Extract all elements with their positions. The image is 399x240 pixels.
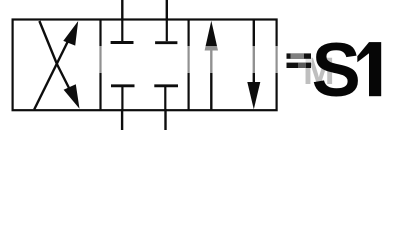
position 3 down arrow head — [247, 82, 260, 109]
position 3 down arrow shaft — [253, 21, 255, 86]
position 1 crossed-flow up arrow shaft — [34, 35, 71, 110]
port line B (top right) — [166, 0, 168, 21]
divider line between position 1 and position 2 — [99, 20, 101, 111]
valve body outline — [13, 20, 277, 111]
watermark lightening band upper — [96, 46, 312, 63]
position 1 crossed-flow up arrow head — [63, 21, 78, 46]
designation text S letter — [312, 27, 361, 112]
equals sign gray watermark patch on upper bar — [291, 53, 305, 58]
designation digit 1 flag — [357, 42, 369, 62]
blocked port symbol top-right: bar — [155, 41, 177, 44]
blocked port symbol top-left: bar — [111, 41, 134, 44]
equals sign lower bar — [287, 63, 312, 68]
designation digit 1 stem — [369, 42, 381, 96]
equals sign gray watermark patch on lower bar — [298, 63, 306, 68]
blocked port symbol top-right: stem — [166, 20, 168, 41]
port line P (bottom left) — [121, 109, 123, 130]
port line T (bottom right) — [164, 109, 166, 130]
divider line between position 2 and position 3 — [188, 20, 190, 111]
blocked port symbol bottom-left: bar — [111, 84, 135, 87]
position 3 up arrow shaft — [210, 46, 212, 110]
position 3 up arrow head — [205, 21, 218, 51]
blocked port symbol bottom-left: stem — [121, 87, 123, 110]
position 1 crossed-flow down arrow shaft — [39, 21, 70, 90]
equals sign upper bar — [287, 53, 312, 58]
port line A (top left) — [121, 0, 123, 21]
svg-text:S: S — [312, 27, 361, 112]
blocked port symbol bottom-right: stem — [164, 87, 166, 110]
watermark lightening band lower — [96, 63, 288, 73]
blocked port symbol bottom-right: bar — [154, 84, 178, 87]
blocked port symbol top-left: stem — [121, 20, 123, 41]
position 1 crossed-flow down arrow head — [64, 84, 80, 109]
